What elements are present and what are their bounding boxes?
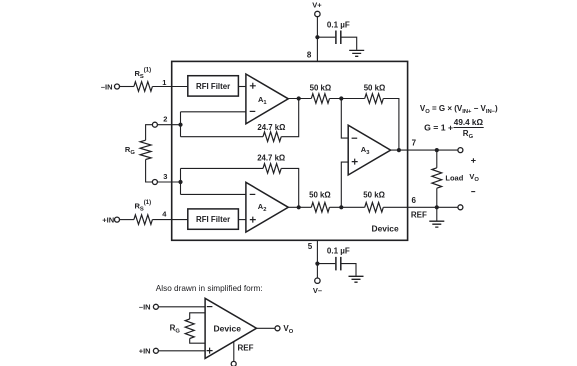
simplified node Vo terminal bbox=[275, 326, 280, 331]
simplified node -IN terminal bbox=[153, 304, 158, 309]
simplified minus sign bbox=[207, 306, 213, 308]
svg-text:REF: REF bbox=[411, 211, 427, 220]
simplified node +IN terminal bbox=[153, 348, 158, 353]
simplified wire REF bbox=[233, 342, 235, 362]
junction A3 feedback node bbox=[397, 148, 401, 152]
op-amp A3 bbox=[348, 125, 390, 175]
wire RFI2 to A2 + input bbox=[238, 219, 246, 221]
junction pin8/C1 node bbox=[315, 35, 319, 39]
svg-text:–IN: –IN bbox=[101, 82, 113, 91]
device box outline bbox=[172, 61, 408, 240]
wire -IN terminal to Rs1 bbox=[120, 86, 134, 88]
resistor 50k top-left bbox=[311, 94, 329, 104]
wire 24.7k lower to A2 output bbox=[281, 168, 299, 207]
wire load down to pin6 node bbox=[436, 188, 438, 207]
svg-text:V+: V+ bbox=[312, 1, 322, 10]
resistor 24.7k upper bbox=[263, 132, 281, 142]
svg-text:REF: REF bbox=[238, 343, 254, 352]
wire A3 output to pin7 and Vo+ terminal bbox=[391, 149, 458, 151]
resistor Rs2 bbox=[134, 215, 153, 225]
svg-text:+IN: +IN bbox=[102, 215, 114, 224]
wire junction to C2 bbox=[317, 263, 335, 265]
wire top row to A3 minus junction bbox=[330, 98, 365, 100]
wire C2 to ground bbox=[341, 264, 356, 276]
svg-text:Device: Device bbox=[372, 224, 399, 234]
junction pin5/C2 node bbox=[315, 262, 319, 266]
capacitor C1 0.1uF plates bbox=[336, 31, 341, 45]
svg-text:RG: RG bbox=[125, 145, 135, 156]
svg-text:RFI Filter: RFI Filter bbox=[196, 82, 230, 91]
svg-text:5: 5 bbox=[308, 242, 313, 251]
wire pin3 terminal to junction bbox=[157, 181, 180, 183]
resistor RG external bbox=[140, 140, 151, 159]
svg-text:–IN: –IN bbox=[139, 303, 151, 312]
wire RG bottom hook bbox=[146, 160, 153, 183]
junction pin3 bbox=[178, 180, 182, 184]
capacitor C2 0.1uF plates bbox=[336, 257, 341, 271]
RFI filter 1 box bbox=[188, 76, 239, 96]
wire pin 8 from V+ terminal into box bbox=[316, 17, 318, 62]
svg-text:4: 4 bbox=[162, 210, 167, 219]
junction pin6 node bbox=[435, 205, 439, 209]
svg-text:50 kΩ: 50 kΩ bbox=[310, 83, 332, 92]
svg-text:RG: RG bbox=[463, 129, 474, 140]
wire RG top hook bbox=[146, 125, 153, 141]
node -IN terminal bbox=[115, 84, 120, 89]
junction pin7 load node bbox=[435, 148, 439, 152]
svg-text:RS(1): RS(1) bbox=[135, 200, 152, 213]
wire A2 output bbox=[288, 206, 311, 208]
formula fraction bar bbox=[454, 127, 484, 129]
svg-text:50 kΩ: 50 kΩ bbox=[364, 83, 386, 92]
resistor 50k bottom-left bbox=[311, 203, 329, 213]
RFI filter 2 box bbox=[188, 209, 239, 229]
resistor 24.7k lower bbox=[263, 164, 281, 174]
svg-text:7: 7 bbox=[412, 139, 417, 148]
node V+ supply terminal bbox=[315, 11, 320, 16]
svg-text:Device: Device bbox=[214, 324, 242, 334]
junction A3 plus node bbox=[339, 205, 343, 209]
A1 minus sign bbox=[250, 110, 256, 112]
node +IN terminal bbox=[115, 217, 120, 222]
svg-text:RG: RG bbox=[170, 324, 181, 335]
svg-text:V–: V– bbox=[313, 286, 322, 295]
wire pin3 node to A2 minus input bbox=[181, 193, 247, 195]
junction pin2 bbox=[178, 123, 182, 127]
simplified device triangle bbox=[205, 298, 256, 358]
ground for C2 bbox=[349, 276, 364, 282]
svg-text:VO = G × (VIN+ − VIN−): VO = G × (VIN+ − VIN−) bbox=[420, 104, 498, 115]
wire junction to C1 bbox=[317, 36, 335, 38]
ground at REF node bbox=[429, 221, 444, 227]
resistor Rs1 bbox=[134, 82, 153, 92]
svg-text:8: 8 bbox=[307, 50, 312, 59]
op-amp A2 bbox=[246, 182, 288, 232]
svg-text:0.1 µF: 0.1 µF bbox=[327, 246, 350, 255]
wire pin3 node to 24.7k lower bbox=[181, 167, 264, 169]
wire RFI1 to A1 + input bbox=[238, 86, 246, 88]
simplified wire -IN to device bbox=[159, 306, 206, 308]
svg-text:VO: VO bbox=[283, 324, 293, 335]
node pin3 terminal (RG) bbox=[152, 180, 157, 185]
svg-text:50 kΩ: 50 kΩ bbox=[309, 191, 331, 200]
A1 plus sign bbox=[250, 83, 256, 89]
A2 minus sign bbox=[250, 193, 256, 195]
svg-text:49.4 kΩ: 49.4 kΩ bbox=[454, 118, 484, 127]
svg-text:+IN: +IN bbox=[139, 347, 151, 356]
simplified resistor RG bbox=[185, 319, 194, 339]
output plus sign bbox=[471, 158, 476, 163]
wire pin6 REF row out to Vo- terminal bbox=[383, 206, 458, 208]
wire Rs1 to RFI filter 1 (pin 1) bbox=[152, 86, 187, 88]
wire pin2 terminal to junction bbox=[157, 124, 180, 126]
svg-text:Also drawn in simplified form:: Also drawn in simplified form: bbox=[156, 283, 263, 293]
node V- supply terminal bbox=[315, 278, 320, 283]
svg-text:0.1 µF: 0.1 µF bbox=[327, 21, 350, 30]
simplified wire +IN to device bbox=[159, 350, 206, 352]
svg-text:Load: Load bbox=[445, 173, 463, 182]
node Vo- output terminal bbox=[458, 205, 463, 210]
resistor 50k top-right (A3 feedback) bbox=[365, 94, 384, 104]
wire Rs2 to RFI filter 2 (pin 4) bbox=[152, 219, 187, 221]
svg-text:24.7 kΩ: 24.7 kΩ bbox=[257, 123, 286, 132]
svg-text:6: 6 bbox=[411, 196, 416, 205]
wire A1 output down to 24.7k upper bbox=[281, 99, 299, 137]
resistor 50k bottom-right (REF) bbox=[365, 203, 384, 213]
simplified wire RG top stub bbox=[190, 313, 205, 319]
svg-text:RFI Filter: RFI Filter bbox=[196, 215, 230, 224]
wire pin3 vertical bbox=[180, 168, 182, 194]
A3 plus sign bbox=[352, 159, 358, 165]
resistor Load bbox=[432, 168, 442, 188]
junction A3 minus node bbox=[339, 96, 343, 100]
wire A3 minus input vertical bbox=[341, 99, 348, 139]
wire +IN terminal to Rs2 bbox=[120, 219, 134, 221]
wire feedback elbow to A3 output bbox=[383, 99, 399, 151]
svg-text:24.7 kΩ: 24.7 kΩ bbox=[257, 153, 286, 162]
A3 minus sign bbox=[352, 137, 358, 139]
node pin2 terminal (RG) bbox=[152, 122, 157, 127]
wire pin6 node to ground bbox=[436, 207, 438, 221]
wire pin 5 from box to V- terminal bbox=[316, 240, 318, 278]
output minus sign bbox=[471, 191, 475, 193]
simplified wire output bbox=[257, 327, 275, 329]
wire bottom row to A3 plus junction bbox=[330, 206, 365, 208]
svg-text:G = 1 +: G = 1 + bbox=[424, 124, 453, 133]
simplified wire RG bottom stub bbox=[190, 339, 205, 344]
simplified plus sign bbox=[207, 348, 213, 354]
wire A3 plus input vertical bbox=[341, 162, 348, 207]
svg-text:1: 1 bbox=[162, 78, 166, 87]
wire 24.7k upper to pin2 node bbox=[181, 136, 264, 138]
svg-text:RS(1): RS(1) bbox=[135, 68, 152, 81]
junction A2 output node bbox=[297, 205, 301, 209]
svg-text:50 kΩ: 50 kΩ bbox=[363, 191, 385, 200]
wire pin7 node down to load bbox=[436, 150, 438, 168]
A2 plus sign bbox=[250, 217, 256, 223]
op-amp A1 bbox=[246, 74, 288, 124]
wire C1 to ground bbox=[341, 37, 356, 50]
junction A1 output node bbox=[297, 96, 301, 100]
svg-text:VO: VO bbox=[469, 172, 479, 183]
simplified node REF terminal bbox=[231, 361, 236, 366]
wire pin2 node to A1 minus input bbox=[181, 111, 247, 113]
node Vo+ output terminal bbox=[458, 148, 463, 153]
svg-text:3: 3 bbox=[163, 172, 167, 181]
wire A1 output bbox=[288, 98, 311, 100]
wire pin2 vertical bbox=[180, 112, 182, 137]
svg-text:2: 2 bbox=[163, 114, 167, 123]
ground for C1 bbox=[349, 50, 364, 56]
